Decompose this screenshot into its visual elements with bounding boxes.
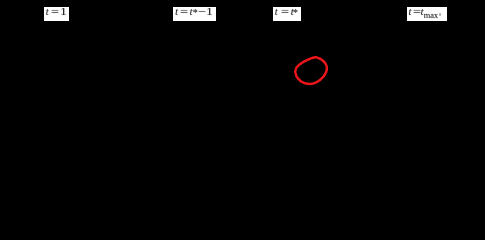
label box t=t* (273, 7, 301, 21)
label box t=tmax (407, 7, 447, 21)
red annotation circle (0, 0, 485, 130)
label box t=1 (44, 7, 69, 21)
faint speck artifact (439, 13, 441, 15)
label box t=t*-1 (173, 7, 216, 21)
